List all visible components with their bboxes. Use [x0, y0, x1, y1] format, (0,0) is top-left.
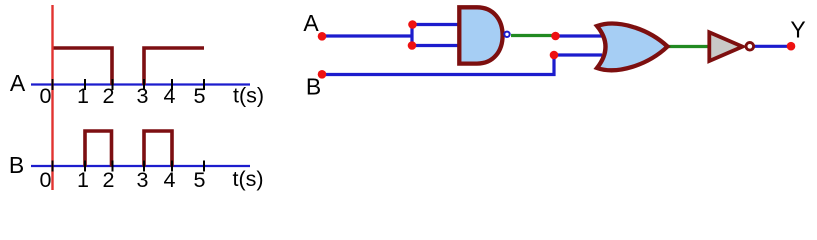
- node junction dot bottom (A branch): [408, 41, 417, 50]
- labels 0-5 axis A: [40, 84, 206, 108]
- svg-text:t(s): t(s): [233, 84, 264, 108]
- svg-text:4: 4: [164, 84, 176, 108]
- node A terminal dot: [318, 32, 327, 41]
- wire B input (to OR bottom input): [322, 55, 602, 75]
- NAND output bubble: [504, 32, 509, 37]
- svg-text:2: 2: [103, 84, 115, 108]
- node junction dot top (A branch): [408, 20, 417, 29]
- wire to NAND bottom input: [412, 44, 460, 47]
- ticks axis B: [53, 161, 205, 172]
- svg-text:0: 0: [40, 168, 52, 192]
- red vertical axis line: [51, 5, 53, 190]
- axis A (blue time axis): [31, 83, 250, 85]
- svg-text:3: 3: [137, 84, 149, 108]
- NAND gate U1 body: [459, 7, 502, 63]
- labels 0-5 axis B: [40, 168, 206, 192]
- waveform A (dark red): [54, 48, 205, 85]
- ticks axis A: [53, 79, 205, 90]
- svg-text:5: 5: [194, 168, 206, 192]
- svg-text:1: 1: [77, 168, 89, 192]
- svg-text:A: A: [10, 70, 26, 96]
- wire A input: [322, 34, 412, 37]
- node junction dot B corner: [550, 51, 559, 60]
- NOT gate U3 body: [709, 32, 742, 61]
- svg-text:Y: Y: [790, 17, 805, 43]
- svg-text:0: 0: [40, 84, 52, 108]
- wire NOT output to Y: [753, 45, 791, 48]
- svg-text:3: 3: [137, 168, 149, 192]
- node Y terminal dot: [787, 42, 796, 51]
- svg-text:A: A: [303, 10, 319, 36]
- node B terminal dot: [318, 70, 327, 79]
- svg-text:B: B: [9, 152, 24, 178]
- svg-text:5: 5: [194, 84, 206, 108]
- svg-text:B: B: [306, 74, 321, 100]
- svg-text:t(s): t(s): [232, 167, 263, 191]
- waveform B (dark red): [85, 131, 172, 167]
- svg-text:4: 4: [164, 168, 176, 192]
- NOT output bubble: [746, 43, 754, 51]
- wire OR output to NOT input (green): [666, 45, 710, 48]
- axis B (blue time axis): [31, 165, 250, 167]
- OR gate U2 body: [597, 24, 668, 71]
- wire to NAND top input: [412, 23, 460, 26]
- wire A branch vertical: [410, 25, 413, 46]
- svg-text:2: 2: [103, 168, 115, 192]
- wire NAND output to junction (green): [511, 34, 556, 37]
- svg-text:1: 1: [77, 84, 89, 108]
- wire junction to OR top input: [555, 34, 602, 37]
- node junction dot NAND out: [551, 32, 560, 41]
